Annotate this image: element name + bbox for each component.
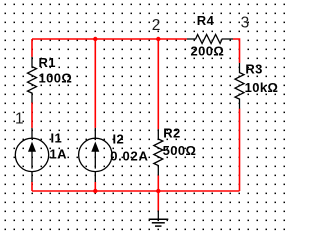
svg-text:200Ω: 200Ω xyxy=(191,44,225,59)
wire left vertical R1 to I1 node 1 xyxy=(31,102,33,128)
svg-text:500Ω: 500Ω xyxy=(163,143,197,158)
svg-text:10kΩ: 10kΩ xyxy=(245,80,279,95)
svg-text:I2: I2 xyxy=(113,131,125,146)
svg-text:0.02A: 0.02A xyxy=(110,148,148,163)
junction bottom at I2 branch xyxy=(93,189,97,193)
svg-text:2: 2 xyxy=(152,17,161,34)
current source I1 xyxy=(15,128,48,182)
svg-text:R1: R1 xyxy=(39,55,56,70)
resistor R3 xyxy=(235,63,244,109)
svg-text:1A: 1A xyxy=(50,147,68,162)
wire I2 branch vertical bottom xyxy=(94,182,96,191)
svg-text:100Ω: 100Ω xyxy=(39,71,73,86)
wire left vertical below I1 xyxy=(31,182,33,191)
wire ground stem red xyxy=(157,191,159,211)
ground xyxy=(149,211,169,227)
svg-text:I1: I1 xyxy=(51,130,63,145)
wire left vertical above R1 xyxy=(31,39,33,57)
svg-text:R2: R2 xyxy=(163,125,180,140)
junction node 2 top at I2 branch xyxy=(93,37,97,41)
svg-text:R4: R4 xyxy=(197,13,215,28)
svg-text:3: 3 xyxy=(241,14,250,31)
wire I2 branch vertical top xyxy=(94,39,96,128)
resistor R2 xyxy=(154,129,163,175)
svg-text:1: 1 xyxy=(15,111,24,128)
junction bottom at R2 branch xyxy=(156,189,160,193)
resistor R1 xyxy=(28,57,37,103)
resistor R4 xyxy=(187,35,233,44)
current source I2 xyxy=(79,128,112,182)
wire top horizontal net 2 xyxy=(32,38,187,40)
wire right vertical below R3 xyxy=(239,109,241,191)
svg-text:R3: R3 xyxy=(245,61,262,76)
wire R2 branch vertical bottom xyxy=(157,175,159,191)
wire R2 branch vertical top xyxy=(157,39,159,129)
junction node 2 top at R2 branch xyxy=(156,37,160,41)
wire bottom horizontal xyxy=(32,190,240,192)
wire top right to corner xyxy=(233,39,240,63)
